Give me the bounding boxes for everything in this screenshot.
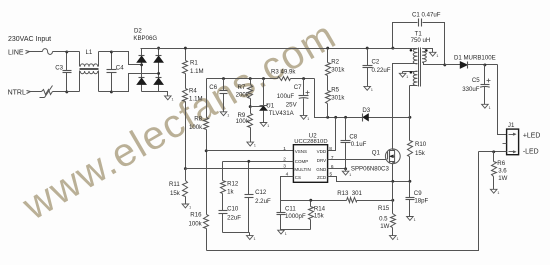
label 230VAC Input [8,36,51,43]
label C10 [227,205,239,212]
node C6 dot [222,77,225,80]
label R10 value [415,150,426,157]
label D1 [454,55,496,62]
wire rail to primary [393,48,414,50]
ground pin6 [342,171,351,177]
svg-text:1: 1 [349,173,351,177]
label C8 [349,134,357,141]
pin label DRV [317,158,326,163]
node C4 top dot [110,50,113,53]
svg-text:Q1: Q1 [372,150,381,157]
label C7 voltage [286,101,298,108]
wire D1 to J1 [498,65,507,135]
svg-text:1: 1 [254,144,256,148]
capacitor C3 label [55,64,63,71]
node pin6 gnd dot [344,167,347,170]
T1 aux winding [403,71,418,86]
svg-text:1: 1 [254,237,256,241]
label R11 [169,181,180,188]
svg-text:VDD: VDD [317,149,327,154]
resistor R15 [391,201,396,236]
node C7 dot [302,77,305,80]
resistor R2 [326,49,331,76]
svg-text:301k: 301k [331,94,345,101]
label C6 [209,84,217,91]
ground U1 [260,123,269,129]
label C8 value [351,141,367,148]
resistor R1 [183,49,188,74]
svg-text:1: 1 [283,146,286,152]
label R16 [190,212,202,219]
label R1 value [190,68,204,75]
wire LINE to fuse [30,51,43,53]
resistor R7 [248,79,253,107]
J1 tick [503,143,507,145]
wire L1 to C4 bottom [99,91,112,93]
label R14 [314,206,326,213]
label T1 [415,31,423,38]
label C5 value [462,86,480,93]
label R16 value [189,221,203,228]
J1 pin1 arrow [509,133,517,136]
capacitor C4 [107,52,117,92]
svg-text:1W: 1W [380,223,389,230]
wire vdd node [315,117,410,119]
svg-text:C8: C8 [349,134,357,141]
pin label CS [295,175,301,180]
label R2 [331,59,339,66]
node R6 dot [492,150,495,153]
diode D1 [460,62,467,69]
T1 primary winding [413,49,417,64]
resistor R9 [248,107,253,143]
label +LED [523,133,540,140]
svg-text:VSNS: VSNS [295,149,307,154]
label R6 value [498,168,507,175]
inductor L1 label [86,49,93,56]
resistor R16 [204,215,209,229]
wire pin6 gnd stub [345,169,347,172]
transformer T1 core [419,48,421,87]
node R2 top dot [326,47,329,50]
svg-text:230VAC Input: 230VAC Input [8,36,51,43]
pin 7 number [331,155,334,161]
svg-text:C7: C7 [294,84,302,91]
node C3 top dot [65,50,68,53]
svg-text:1: 1 [397,237,399,241]
svg-text:R8: R8 [194,116,202,123]
wire multin to pin3 [186,168,294,170]
svg-text:1k: 1k [227,188,234,195]
svg-text:C12: C12 [255,189,267,196]
label Q1 [372,150,381,157]
wire varistor to C3 node [53,91,67,93]
svg-text:1: 1 [285,232,287,236]
svg-text:R12: R12 [227,180,239,187]
wire q1 drain [392,118,394,149]
svg-text:1: 1 [436,54,438,58]
wire aux bottom down [409,86,411,118]
svg-text:LINE: LINE [8,50,24,57]
resistor R11 [183,169,188,197]
wire C4 to bridge top [112,52,142,65]
pin 4 number [286,171,289,177]
wire R8 to R16 [206,130,208,215]
node zcd-c9 dot [408,180,411,183]
T1 aux phase dot [410,71,413,74]
node bridge line-in dot [140,63,143,66]
label C7 [294,84,302,91]
pin label ZCD [317,175,327,180]
label U2 [309,133,317,140]
svg-text:NTRL: NTRL [8,90,26,97]
resistor R4 [183,74,188,102]
resistor R14 [309,201,314,230]
svg-text:1000pF: 1000pF [285,213,306,220]
resistor R6 [492,152,497,190]
svg-text:+LED: +LED [523,133,540,140]
label R7 value [236,91,250,98]
capacitor C5 (electrolytic) [480,65,490,105]
ground C11 [278,230,287,236]
svg-text:3.6: 3.6 [498,168,507,175]
svg-text:1: 1 [172,98,174,102]
wire fuse to C3 node [53,51,67,53]
transistor Q1 [385,149,400,164]
svg-text:1: 1 [371,88,373,92]
wire secondary bottom to D1 [423,63,445,65]
resistor R8 [204,118,209,130]
wire pin2 comp [249,161,294,163]
ground C5 [482,104,491,110]
port chevron NTRL [27,91,31,94]
port chevron LINE [26,51,30,54]
label C2 value [372,67,391,74]
pin label VSNS [295,149,307,154]
capacitor C4 label [116,65,124,72]
label J1 [508,122,515,129]
svg-text:D2: D2 [134,28,142,35]
svg-text:1: 1 [497,191,499,195]
label R6 [497,160,505,167]
label C1 value [412,12,441,19]
svg-text:DRV: DRV [317,158,326,163]
label R5 [331,86,339,93]
wire vref node [207,78,278,80]
watermark www.elecfans.com [15,13,344,229]
svg-text:C5: C5 [472,77,480,84]
svg-text:R4: R4 [189,88,197,95]
wire C3 to L1 top [67,51,80,53]
label C9 value [414,198,428,205]
wire R11 to ground [185,197,187,205]
wire D1 anode [445,64,461,66]
svg-text:0.1uF: 0.1uF [351,141,367,148]
svg-text:200k: 200k [236,91,250,98]
svg-text:0.22uF: 0.22uF [372,67,391,74]
wire q1 source [392,164,394,182]
svg-text:CS: CS [295,175,301,180]
ground C2 [364,86,373,92]
svg-text:R2: R2 [331,59,339,66]
svg-text:-LED: -LED [523,149,539,156]
node C5 dot [483,63,486,66]
connector J1 body [507,129,519,155]
svg-text:ZCD: ZCD [317,175,327,180]
bridge left column wire [141,49,143,92]
label KBP06G [133,35,157,42]
svg-text:100k: 100k [189,221,203,228]
wire pin7 drv to gate [328,159,387,161]
svg-text:100k: 100k [236,118,250,125]
svg-text:J1: J1 [508,122,515,129]
label C7 value [277,93,295,100]
wire C10-C12 tie [223,232,250,234]
pin label COMP [295,159,309,164]
node R7 dot [249,77,252,80]
label R10 [415,141,427,148]
label R8 [194,116,202,123]
ground R6 [490,189,499,195]
bridge diode bottom-right [154,78,163,85]
label R7 [238,84,246,91]
capacitor C1 [393,19,445,65]
wire D1 cathode [468,64,498,66]
svg-text:C1 0.47uF: C1 0.47uF [412,12,441,19]
svg-text:TLV431A: TLV431A [269,110,295,117]
label C12 value [255,198,271,205]
svg-text:750 uH: 750 uH [411,37,431,44]
svg-text:25V: 25V [286,101,298,108]
wire bridge DC- rail [142,92,168,96]
wire bottom feedback [207,152,479,251]
svg-text:C10: C10 [227,205,239,212]
pin 5 number [330,171,333,177]
svg-text:15k: 15k [415,150,426,157]
wire primary bottom to drain [393,64,414,118]
pin label VDD [317,149,327,154]
svg-text:15k: 15k [170,190,181,197]
label C10 value [227,215,241,222]
svg-text:U1: U1 [266,103,274,110]
svg-text:SPP06N80C3: SPP06N80C3 [351,165,390,172]
ground C9 [407,217,416,223]
T1 secondary phase dot [425,49,428,52]
node C8 branch dot [344,116,347,119]
capacitor C3 [63,52,72,92]
label U1 [266,103,274,110]
label R14 value [314,212,325,219]
inductor L1 (common-mode choke) [80,52,99,92]
pin 8 number [329,146,332,152]
svg-text:1: 1 [307,117,309,121]
resistor R13 [347,198,357,203]
svg-text:R11: R11 [169,181,180,188]
bridge right column wire [158,49,160,92]
label TLV431A [269,110,295,117]
svg-text:1.1M: 1.1M [189,96,203,103]
pin 1 number [283,146,286,152]
bridge diode top-left [137,56,146,63]
svg-text:UCC28810D: UCC28810D [294,139,327,145]
label D3 [362,107,370,114]
ground R9 [247,142,256,148]
wire pin8 vdd [328,118,336,151]
wire R7R9 to U1 ref [251,106,264,108]
capacitor C10 [219,194,228,233]
svg-text:1: 1 [227,113,229,117]
pin 2 number [283,156,286,162]
svg-text:GND: GND [316,167,327,172]
capacitor C2 [363,49,373,87]
label R15 power [380,223,389,230]
label R15 [378,205,390,212]
label LINE [8,50,24,57]
svg-text:100uF: 100uF [277,93,295,100]
capacitor C7 (electrolytic) [299,79,310,116]
svg-text:1: 1 [406,75,408,79]
node C3 bottom dot [65,90,68,93]
wire aux top gnd stub [402,72,404,74]
IC U2 body [293,145,327,183]
node vsns dot [205,149,208,152]
svg-text:1.1M: 1.1M [190,68,204,75]
label NTRL [8,90,26,97]
svg-text:1: 1 [267,124,269,128]
wire secondary top to gnd [423,49,433,53]
svg-text:22uF: 22uF [227,215,241,222]
resistor R3 [278,77,291,81]
node aux-zcd dot [408,116,411,119]
pin 3 number [283,164,286,170]
wire q1 source to cs [392,182,394,201]
svg-text:15k: 15k [314,212,325,219]
svg-text:301k: 301k [331,67,345,74]
label R3 value [271,69,296,76]
wire R4 to multin node [185,102,187,169]
wire pin6 gnd [328,168,346,170]
svg-text:C2: C2 [372,59,380,66]
node R14 top dot [309,199,312,202]
pin 6 number [331,164,334,170]
svg-text:R5: R5 [331,86,339,93]
ground C6 [220,112,229,118]
wire C7node down to vdd wire [315,79,327,118]
svg-text:COMP: COMP [295,159,309,164]
label C11 value [285,213,306,220]
svg-text:C4: C4 [116,65,124,72]
label D2 [134,28,142,35]
node bridge top-right dot [157,47,160,50]
label R9 value [236,118,250,125]
node sec-C1 dot [443,63,446,66]
label C9 [414,190,422,197]
shunt reference U1 [259,79,269,123]
capacitor C6 [220,79,228,112]
ground bridge [165,96,174,102]
pin label GND [316,167,327,172]
wire -LED [479,151,507,153]
svg-text:L1: L1 [86,49,93,56]
node R1 top dot [184,47,187,50]
capacitor C9 [406,182,415,217]
svg-text:1: 1 [489,106,491,110]
svg-text:1: 1 [414,218,416,222]
node C4 bottom dot [110,90,113,93]
fuse F1 [43,49,53,55]
node C2 top dot [366,47,369,50]
label R15 value [379,216,388,223]
T1 primary phase dot [410,49,413,52]
ground R15 [390,236,399,242]
wire C11-R14 tie [281,229,311,231]
label R11 value [170,190,181,197]
svg-text:6: 6 [331,164,334,170]
node q1 source dot [391,180,394,183]
svg-text:1W: 1W [498,175,507,182]
svg-text:1: 1 [189,206,191,210]
label R13 value [337,190,362,197]
node R5 bottom dot [326,116,329,119]
svg-text:18pF: 18pF [414,198,428,205]
svg-text:R3 49.9k: R3 49.9k [271,69,296,76]
label R2 value [331,67,345,74]
wire R3 to C7 node [291,78,315,80]
varistor RV1 [40,86,53,98]
ground aux [399,73,408,79]
svg-text:MULTIN: MULTIN [294,167,310,172]
label R9 [238,112,246,119]
node bridge ntrl-in dot [157,72,160,75]
wire C4 to bridge bottom [112,74,159,92]
wire pin5 zcd [328,177,410,182]
svg-text:R6: R6 [497,160,505,167]
svg-text:R15: R15 [378,205,390,212]
ground secondary [429,52,438,58]
svg-text:R13 301: R13 301 [337,190,362,197]
capacitor C12 [245,162,254,233]
wire L1 to C4 top [99,51,112,53]
svg-text:100k: 100k [189,124,203,131]
resistor R12 [221,162,226,194]
label -LED [523,149,539,156]
diode D3 [363,114,369,122]
bridge diode top-right [154,56,163,63]
bridge diode bottom-left [137,78,146,85]
label R12 value [227,188,234,195]
node C12 top dot [247,160,250,163]
wire R13 to q1 source [357,200,393,202]
label R4 value [189,96,203,103]
ground C7 [300,115,309,121]
svg-text:3: 3 [283,164,286,170]
capacitor C11 [277,201,286,230]
wire vsns vertical top [206,79,208,118]
wire tie gnd stub [249,233,251,236]
svg-text:R7: R7 [238,84,246,91]
svg-text:R10: R10 [415,141,427,148]
capacitor C8 [341,118,351,169]
wire R16 to feedback [206,229,208,251]
node pin8 branch dot [334,116,337,119]
wire top DC+ rail [141,48,393,50]
svg-text:0.5: 0.5 [379,216,388,223]
svg-text:C6: C6 [209,84,217,91]
node R7-R9 dot [249,105,252,108]
svg-text:C9: C9 [414,190,422,197]
wire vsns to pin1 [207,150,294,152]
node multin junction dot [184,167,187,170]
